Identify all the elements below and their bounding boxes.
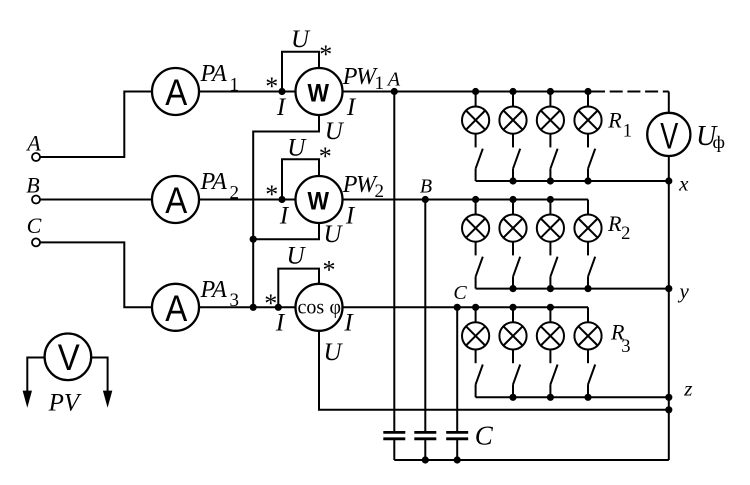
svg-text:C: C (27, 213, 42, 238)
svg-text:PA: PA (200, 61, 228, 87)
svg-text:R: R (607, 211, 622, 236)
svg-text:cos: cos (298, 296, 325, 318)
svg-text:A: A (165, 180, 187, 221)
svg-text:x: x (678, 172, 689, 196)
svg-text:3: 3 (230, 290, 240, 311)
svg-text:1: 1 (375, 73, 385, 94)
svg-text:PW: PW (342, 64, 378, 90)
svg-text:*: * (319, 40, 332, 69)
svg-text:U: U (323, 221, 343, 248)
svg-text:W: W (308, 188, 330, 216)
svg-text:PA: PA (200, 169, 228, 195)
svg-text:*: * (265, 72, 278, 101)
svg-text:W: W (308, 80, 330, 108)
svg-text:A: A (386, 68, 401, 90)
svg-text:U: U (291, 26, 311, 53)
svg-text:B: B (26, 172, 39, 197)
svg-text:B: B (420, 175, 432, 197)
svg-text:PA: PA (200, 277, 228, 303)
svg-text:2: 2 (230, 182, 240, 203)
svg-text:*: * (265, 180, 278, 209)
svg-text:*: * (323, 256, 336, 285)
svg-text:φ: φ (330, 296, 342, 318)
svg-text:U: U (325, 118, 345, 145)
svg-text:C: C (475, 421, 494, 451)
svg-text:V: V (58, 337, 80, 378)
svg-text:*: * (319, 142, 332, 171)
svg-text:C: C (453, 282, 467, 304)
svg-text:PW: PW (342, 172, 378, 198)
svg-text:PV: PV (48, 390, 82, 417)
svg-text:z: z (683, 377, 692, 401)
svg-text:2: 2 (621, 224, 630, 244)
svg-text:U: U (323, 339, 343, 366)
svg-text:1: 1 (230, 74, 240, 95)
svg-text:R: R (607, 107, 622, 132)
svg-text:A: A (165, 288, 187, 329)
svg-text:A: A (25, 131, 41, 156)
svg-text:A: A (165, 72, 187, 113)
svg-text:U: U (286, 242, 306, 269)
svg-text:1: 1 (623, 122, 632, 142)
svg-text:2: 2 (375, 181, 385, 202)
svg-text:3: 3 (621, 337, 630, 357)
svg-text:V: V (660, 116, 678, 157)
svg-text:U: U (287, 135, 307, 162)
svg-text:y: y (678, 279, 690, 303)
svg-text:*: * (264, 289, 277, 318)
svg-text:ф: ф (713, 132, 726, 152)
